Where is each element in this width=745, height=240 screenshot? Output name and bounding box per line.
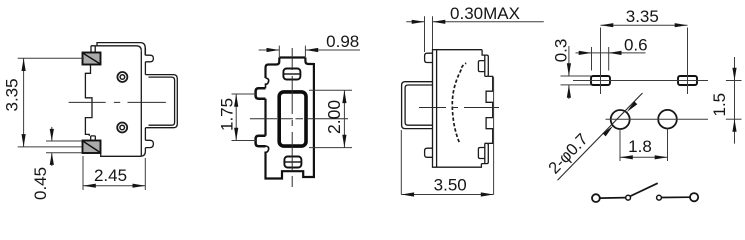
right tab bottom bump: [478, 148, 484, 159]
pad vertical centerline left: [600, 28, 602, 95]
contact rivet lower: [117, 123, 127, 133]
right tab top bump: [478, 61, 484, 72]
right tab bottom stem: [481, 143, 488, 163]
left tab top (0.30 protrusion): [425, 53, 433, 62]
dashed dome contact arc: [452, 63, 466, 143]
svg-text:3.35: 3.35: [626, 7, 659, 26]
top cover (lid) outer line: [97, 43, 145, 56]
body right edge outer segments: [144, 48, 146, 141]
svg-text:0.3: 0.3: [552, 39, 571, 63]
schematic terminal circle right: [690, 193, 698, 201]
hole circle left: [611, 110, 630, 129]
extension lines 0.98: [279, 46, 305, 57]
centerline horizontal view1: [69, 101, 166, 103]
svg-text:2.45: 2.45: [94, 166, 127, 185]
svg-text:1.8: 1.8: [628, 137, 652, 156]
terminal bottom-left (hatched): [83, 141, 101, 154]
dimension 1.8 line and arrows: [620, 155, 668, 159]
right tab top stem: [482, 50, 488, 77]
left tab bottom: [425, 148, 433, 157]
dimension 3.35 left: line and arrows: [22, 58, 26, 147]
extension lines for 2.45: [83, 156, 145, 190]
left side tab upper: [256, 88, 266, 98]
pad row centerline: [573, 80, 708, 82]
svg-text:2.00: 2.00: [324, 100, 344, 134]
dimension 0.3: outside arrows: [567, 46, 571, 99]
body left edge with steps: [85, 65, 92, 136]
push button side: [402, 82, 433, 129]
extension lines 2.00: [309, 90, 352, 147]
extension lines 1.8: [620, 129, 668, 161]
schematic contact circle left: [626, 195, 631, 200]
dimension 2.00 line and arrows: [342, 90, 346, 147]
pad right: [678, 76, 697, 85]
pad vertical centerline right: [687, 28, 689, 95]
svg-text:0.6: 0.6: [624, 36, 648, 55]
body outline (top, left, bottom edges): [433, 50, 483, 168]
bottom slot (stadium): [284, 157, 301, 168]
centerline vertical view2: [291, 48, 293, 187]
left edge hook bottom: [266, 146, 269, 152]
button inner edge lines: [149, 77, 175, 125]
extension lines 1.5: [726, 81, 742, 120]
extension lines 0.3: [561, 76, 592, 85]
dimension 3.35 (view4) line and arrows: [601, 23, 688, 27]
body outline top view: [266, 58, 314, 179]
left side tab lower: [256, 136, 266, 146]
body inner left line: [436, 50, 438, 168]
right tab bottom: [145, 140, 153, 147]
hole circle right: [658, 110, 677, 129]
extension lines 0.6: [592, 47, 609, 71]
svg-text:1.5: 1.5: [710, 93, 729, 117]
body right edge inner line: [140, 51, 142, 156]
centerline horizontal view2: [250, 118, 348, 120]
dimension 1.75 line and arrows: [234, 94, 238, 141]
extension line: left tab1 center: [232, 93, 257, 95]
dimension 0.30MAX: outside arrows: [406, 20, 544, 24]
schematic lever arm: [630, 183, 657, 196]
right tab top: [145, 55, 153, 62]
centerline horizontal view3: [419, 107, 499, 109]
svg-text:1.75: 1.75: [217, 98, 236, 131]
extension line: top terminal center (for 3.35): [18, 57, 84, 59]
leader line 2-phi0.7 with diameter arrows: [558, 93, 643, 180]
push button (actuator): [145, 75, 177, 128]
terminal neck lower (above bottom terminal): [91, 136, 96, 140]
svg-text:0.98: 0.98: [326, 32, 359, 51]
extension lines 0.30MAX: [425, 16, 433, 52]
dimension 1.5: outside arrows: [732, 57, 736, 144]
contact rivet upper: [117, 72, 127, 82]
extension line: bottom terminal center (for 3.35): [18, 146, 82, 148]
svg-text:3.35: 3.35: [3, 78, 22, 111]
extension line: left tab2 center: [232, 140, 257, 142]
svg-text:0.45: 0.45: [31, 167, 50, 200]
schematic wire right: [661, 196, 690, 198]
pad left: [591, 76, 610, 85]
dimension 3.50 line and arrows: [401, 192, 493, 196]
central actuator slot (thick): [279, 92, 306, 146]
terminal top-left (hatched): [83, 53, 101, 65]
svg-text:3.50: 3.50: [434, 175, 467, 194]
right edge castellation: [486, 76, 493, 143]
button inner edge lines: [405, 85, 432, 125]
dimension 0.6: outside arrows: [576, 51, 646, 55]
svg-text:0.30MAX: 0.30MAX: [450, 4, 520, 23]
schematic wire left: [600, 197, 626, 200]
terminal neck upper (above top terminal): [91, 46, 95, 53]
dimension 2.45: line and arrows: [83, 184, 145, 188]
extension lines 3.50: [401, 77, 493, 195]
body bottom edge: [101, 148, 146, 157]
dimension 0.98: outside arrows: [259, 48, 360, 52]
extension line: bottom terminal bottom (for 0.45): [46, 152, 82, 154]
circles row centerline: [606, 118, 709, 120]
top cover inner line: [91, 46, 141, 51]
schematic contact circle right: [657, 195, 662, 200]
extension line: bottom terminal top (for 0.45): [46, 140, 82, 142]
top slot (stadium): [283, 69, 300, 80]
left edge hook top: [266, 78, 269, 88]
dimension 0.45: arrows outside: [50, 127, 54, 166]
schematic terminal circle left: [592, 194, 600, 202]
